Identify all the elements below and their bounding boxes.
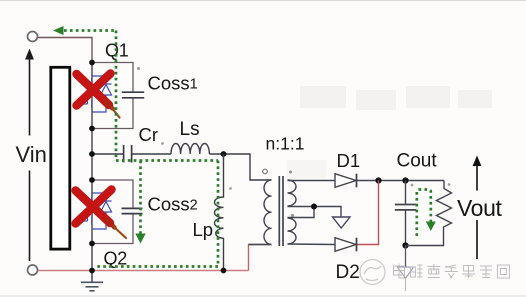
node D2 link <box>375 177 381 183</box>
node center tap <box>311 204 317 210</box>
node Lp top <box>221 151 227 157</box>
wire green right vertical <box>217 161 220 267</box>
faint watermark ghost top right <box>287 86 492 178</box>
svg-text:n:1:1: n:1:1 <box>266 134 305 154</box>
inductor Ls <box>171 144 209 155</box>
green arrow down (output) <box>426 222 436 232</box>
wire top-left from input terminal to Q1 drain <box>38 38 92 63</box>
capacitor Coss1 <box>122 92 144 98</box>
wire output bottom <box>406 232 444 246</box>
primary return riser wire (red) <box>249 245 272 271</box>
node dots on rail <box>89 60 95 66</box>
top border line <box>0 0 526 2</box>
star marker Lp <box>229 187 232 190</box>
wire green left vertical through Q1 <box>115 31 118 161</box>
wire primary bottom <box>249 244 272 246</box>
red X over Q1 <box>77 74 120 118</box>
wire green bottom horizontal <box>97 265 218 268</box>
Q1 branch box wire <box>92 63 133 129</box>
watermark text <box>394 264 510 279</box>
Q2 branch box wire <box>92 180 133 244</box>
diode D2 <box>335 238 357 252</box>
svg-text:Cr: Cr <box>139 124 159 145</box>
svg-text:Vin: Vin <box>16 142 47 167</box>
Vin measurement arrow (up) <box>25 49 34 262</box>
wire Ls to transformer primary <box>209 154 271 180</box>
node Cout top <box>402 177 408 183</box>
transformer secondary winding 2 <box>288 218 297 244</box>
ground (secondary, open triangle) <box>333 217 351 228</box>
wire Cr to Ls <box>132 153 171 155</box>
load resistor <box>437 181 452 233</box>
green output current loop (dotted) <box>417 190 431 237</box>
Vout arrow (up) <box>473 156 482 260</box>
svg-text:Vout: Vout <box>457 195 502 221</box>
capacitor Cout branch <box>405 181 407 246</box>
node output bottom <box>402 242 408 248</box>
star marker near Ls <box>161 142 164 145</box>
terminal circle bottom-left <box>28 265 38 275</box>
svg-text:Coss2: Coss2 <box>148 194 198 215</box>
node Lp bottom <box>221 268 227 274</box>
svg-text:Coss1: Coss1 <box>148 73 198 94</box>
svg-text:Ls: Ls <box>180 119 200 140</box>
green resonant current loop (dotted) <box>64 31 218 267</box>
DC source rectangle <box>51 67 70 249</box>
transistor Q2 (MOSFET, blue) <box>77 193 112 229</box>
wire green top segment <box>64 29 116 32</box>
bottom border line <box>0 295 526 297</box>
svg-text:Lp: Lp <box>193 219 214 240</box>
node rail bottom junction <box>89 268 95 274</box>
svg-text:D1: D1 <box>337 150 361 171</box>
ground <box>81 271 103 291</box>
capacitor Cr <box>124 145 132 163</box>
wire green middle horizontal <box>116 159 218 162</box>
polarity dot primary <box>263 169 268 174</box>
terminal circle top-left <box>28 32 38 42</box>
svg-text:D2: D2 <box>336 262 360 283</box>
wire secondary2 bottom to D2 <box>288 243 336 246</box>
main rail wire (drain-source chain) <box>91 63 93 272</box>
svg-text:Cout: Cout <box>397 151 438 172</box>
polarity star secondary 1 <box>289 171 292 174</box>
red X over Q2 <box>76 190 127 239</box>
wire center tap <box>288 207 342 218</box>
wire D2 cathode link (red) <box>357 181 379 245</box>
capacitor Coss2 <box>122 208 143 213</box>
bottom rail wire (red) <box>38 270 249 272</box>
transformer primary winding <box>264 180 272 245</box>
star markers output <box>411 184 414 187</box>
inductor Lp <box>215 154 224 271</box>
green arrow down (Q2) <box>135 234 145 244</box>
wire green branch to Q2 <box>139 161 142 235</box>
wire D1 cathode to output <box>357 180 445 182</box>
transformer core <box>278 176 280 246</box>
diode D1 <box>335 174 357 188</box>
polarity star Coss1 <box>137 67 140 70</box>
polarity star secondary 2 <box>291 214 294 217</box>
output ground <box>398 246 414 292</box>
wire secondary1 top to D1 <box>288 180 336 182</box>
transistor Q1 (MOSFET, blue) <box>77 76 112 112</box>
green arrow left (top) <box>53 26 64 35</box>
resonant branch wire to Cr <box>92 153 123 155</box>
transformer secondary winding 1 <box>288 180 297 206</box>
watermark logo <box>360 260 385 285</box>
